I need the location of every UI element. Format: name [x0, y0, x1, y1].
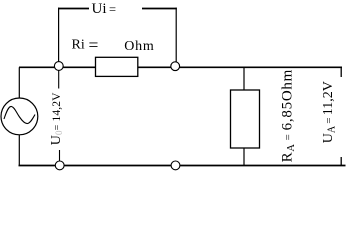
svg-text:=: = [89, 35, 99, 55]
svg-text:Ui: Ui [92, 1, 107, 17]
svg-text:RA = 6,85Ohm: RA = 6,85Ohm [279, 69, 297, 162]
wire UA terminal tick top [340, 67, 342, 77]
resistor RA [231, 90, 260, 148]
svg-text:UA = 11,2V: UA = 11,2V [321, 81, 338, 143]
label Ri = [72, 35, 99, 55]
wire top rail [19, 66, 342, 68]
node top-left junction [54, 62, 63, 71]
svg-text:Ohm: Ohm [124, 39, 154, 54]
wire U0 measurement stub upper [58, 70, 60, 89]
AC source G1 [1, 98, 38, 135]
wire source top lead [18, 67, 20, 100]
wire RA top lead [243, 67, 245, 91]
svg-text:Ri: Ri [72, 38, 85, 53]
svg-text:U0= 14,2V: U0= 14,2V [49, 92, 64, 145]
node bottom-right junction [171, 161, 180, 170]
wire UA terminal tick bottom [340, 157, 342, 166]
label Ui = [92, 1, 117, 17]
wire RA bottom lead [243, 147, 245, 166]
node bottom-left junction [55, 161, 64, 170]
wire Ui bracket top-left segment [58, 8, 89, 10]
svg-text:=: = [109, 3, 116, 17]
wire source bottom lead [18, 133, 20, 166]
wire Ui bracket left vertical [58, 8, 60, 62]
wire Ui bracket right vertical [175, 8, 177, 62]
wire U0 measurement stub lower [59, 150, 61, 161]
wire bottom rail [19, 165, 346, 167]
node top-right junction [171, 62, 180, 71]
wire Ui bracket top-right segment [142, 8, 177, 10]
resistor Ri [96, 57, 138, 76]
